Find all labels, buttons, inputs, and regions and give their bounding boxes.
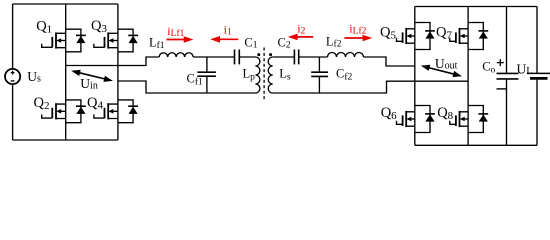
upper tap wire from leg1 to filter [66,57,160,66]
capacitor Cf2 [311,57,328,93]
transistor Q1 [42,29,86,52]
current arrow i1 [218,38,238,40]
battery UL top plate [527,72,550,74]
capacitor Co plates [497,73,519,79]
transistor Q7 [450,23,488,50]
wire Ls to C2 [273,56,295,58]
voltage source Us [5,69,20,84]
transformer winding Lp [255,57,260,93]
left bridge top rail [13,3,118,5]
transistor Q5 [397,23,435,50]
battery UL wire [536,7,538,146]
Uin arrow [77,72,107,79]
lower tap wire from leg2 to bottom filter rail [118,81,256,93]
right bridge leg 2 wire [467,7,469,146]
right bridge bottom rail [415,144,537,146]
right bridge top rail [415,6,537,8]
capacitor Cf1 [197,57,216,93]
transistor Q8 [450,106,488,133]
dot primary [257,53,260,56]
current arrow iLf1 [167,39,186,41]
transistor Q4 [94,100,138,123]
capacitor C1 [235,50,240,65]
inductor Lf1 [159,53,193,57]
dot secondary [269,53,272,56]
right bridge leg 1 wire [414,7,416,146]
Co plus sign [497,59,504,66]
transformer core dashed line [263,48,265,101]
capacitor C2 [294,50,298,65]
transistor Q6 [397,106,435,133]
wire C2 to Lf2 [299,56,328,58]
transistor Q2 [42,100,86,123]
current arrow i2 [296,36,313,38]
inductor Lf2 [328,53,364,58]
left rail wire with source gap [12,4,14,140]
left bridge bottom rail [13,139,118,141]
left bridge leg 2 wire [117,4,119,140]
wire Lf1 to C1 [193,56,234,58]
transistor Q3 [94,29,138,52]
battery UL bottom plate [530,77,548,80]
Uout arrow [427,67,457,75]
transformer winding Ls [268,57,273,93]
left bridge leg 1 wire [65,4,67,140]
secondary bottom wire to right bridge lower tap [273,81,468,93]
wire C1 to Lp [239,56,255,58]
capacitor Co branch wire [506,7,508,146]
current arrow iLf2 [344,37,364,39]
Co minus mark [497,88,507,90]
wire Lf2 to right bridge upper tap [364,57,415,66]
